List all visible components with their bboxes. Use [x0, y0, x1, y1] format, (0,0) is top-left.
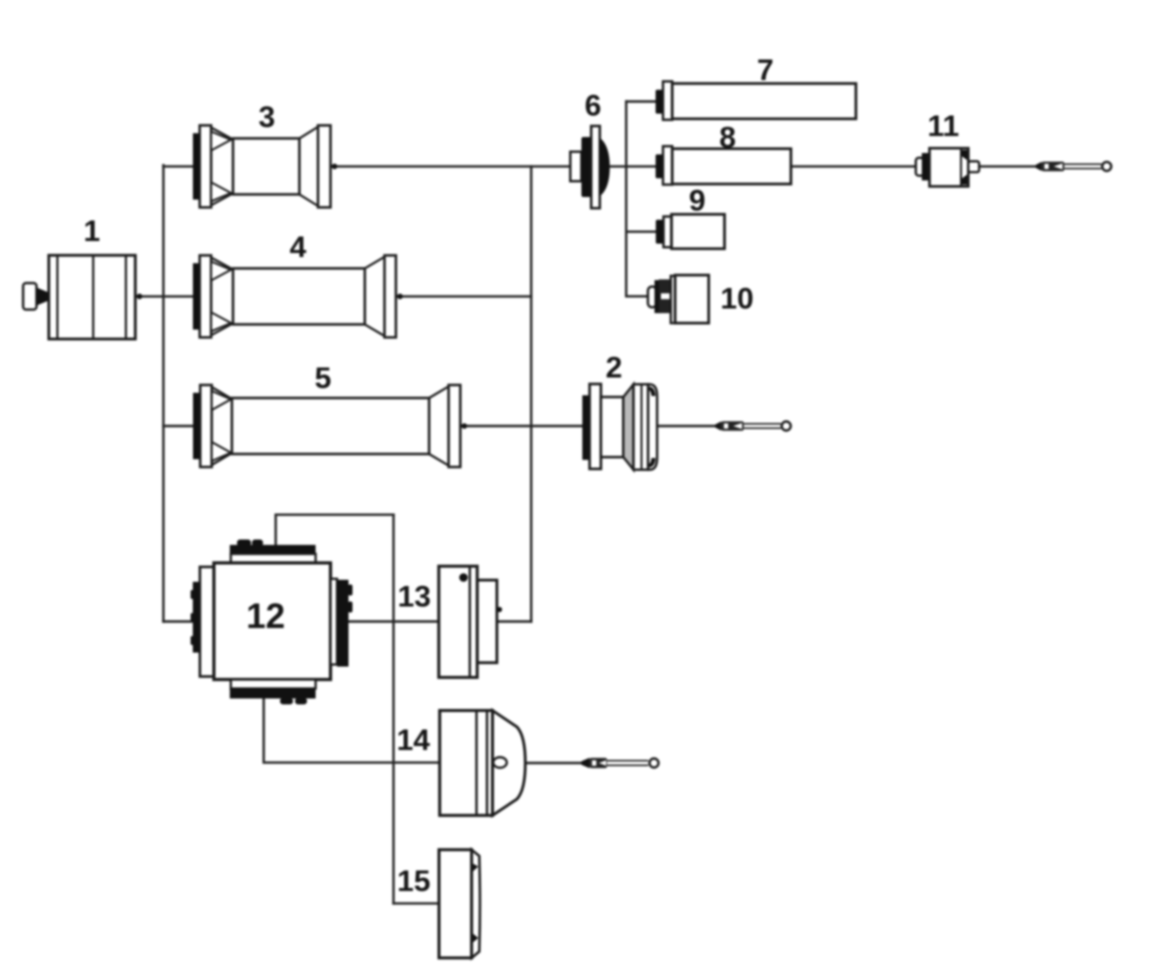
wire comp6 to comp8 — [610, 165, 656, 167]
component 9 short bar — [656, 214, 725, 248]
wire branch to comp9 — [626, 230, 656, 232]
wire bus1 vertical — [162, 165, 164, 621]
wire comp1 to comp4 — [135, 295, 193, 297]
svg-text:1: 1 — [83, 215, 100, 248]
wire bus1 to comp12 — [163, 620, 192, 622]
component 8 bar — [656, 146, 791, 184]
svg-text:14: 14 — [397, 724, 431, 757]
component 5 extension bar — [193, 385, 460, 467]
component 10 adaptor box — [648, 275, 709, 323]
wire comp2 to stylus — [657, 425, 715, 427]
wire branch to comp7 — [626, 100, 655, 102]
wire comp11 to stylus — [979, 165, 1036, 167]
wire comp14 to stylus — [526, 762, 582, 764]
svg-text:8: 8 — [719, 121, 736, 154]
wire comp3 to comp6 — [331, 165, 571, 167]
wire comp5 to comp2 — [460, 425, 583, 427]
junction dot comp1 output — [137, 294, 143, 300]
svg-text:12: 12 — [246, 597, 285, 636]
component 6 coupling disc — [570, 126, 610, 208]
svg-text:3: 3 — [258, 101, 275, 134]
wire comp8 to comp11 — [791, 165, 916, 167]
wire branch to comp10 — [626, 295, 648, 297]
wire comp12 bottom to comp14 — [264, 698, 440, 762]
svg-text:6: 6 — [585, 90, 602, 123]
component 12 probe changer body — [191, 540, 353, 705]
component 14 dome probe — [440, 711, 526, 816]
svg-text:5: 5 — [315, 362, 332, 395]
svg-text:9: 9 — [689, 185, 706, 218]
stylus of comp14 — [581, 758, 658, 768]
wire bus1 to comp3 — [163, 165, 193, 167]
svg-text:2: 2 — [606, 352, 623, 385]
component 13 adaptor plate — [439, 566, 502, 677]
svg-text:11: 11 — [927, 110, 959, 143]
wire bus3 to comp15 — [394, 902, 440, 904]
svg-text:10: 10 — [720, 282, 753, 315]
component 11 small probe — [916, 148, 979, 186]
svg-text:7: 7 — [757, 54, 774, 87]
component 4 extension bar — [193, 255, 396, 337]
component 1 probe head — [23, 255, 135, 339]
svg-text:4: 4 — [290, 231, 307, 264]
component 2 touch probe — [582, 384, 657, 470]
wire comp13 to bus2 — [497, 620, 531, 622]
junction dot comp4 output — [397, 294, 403, 300]
junction dot comp3 output — [332, 164, 338, 170]
wire comp12 to comp13 — [349, 620, 439, 622]
wire comp4 to bus2 — [396, 295, 531, 297]
wire branch vertical 7-10 — [625, 102, 627, 297]
junction dot comp5 output — [462, 423, 468, 429]
svg-text:13: 13 — [398, 580, 431, 613]
svg-text:15: 15 — [397, 865, 430, 898]
component 7 long bar — [656, 81, 856, 119]
wire bus1 to comp5 — [163, 425, 193, 427]
wire comp12 top riser — [276, 515, 394, 545]
component 15 adaptor disc — [439, 850, 480, 958]
stylus of comp11 — [1036, 162, 1112, 172]
component 3 extension bar — [193, 125, 331, 207]
wire bus3 vertical — [392, 515, 394, 904]
stylus of comp2 — [715, 421, 791, 431]
wire bus2 vertical — [530, 166, 532, 621]
